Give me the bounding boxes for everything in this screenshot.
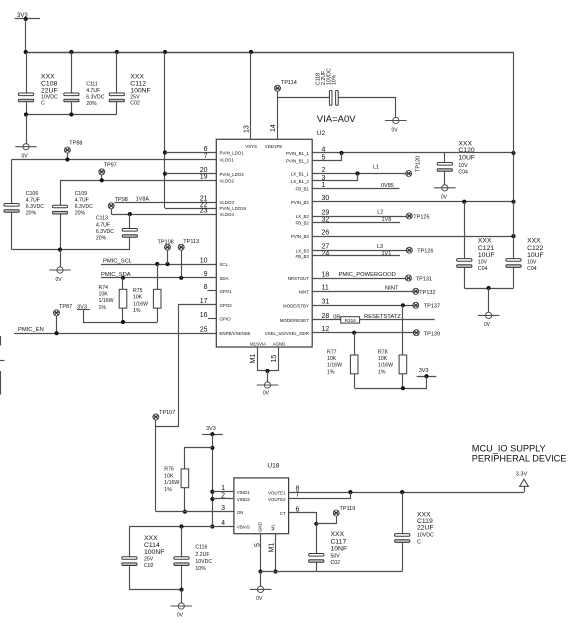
- svg-text:31: 31: [322, 299, 330, 306]
- svg-text:TP88: TP88: [69, 141, 82, 147]
- svg-text:FB_B3: FB_B3: [295, 254, 309, 259]
- svg-text:10K: 10K: [327, 356, 337, 362]
- svg-text:RESETSTATZ: RESETSTATZ: [364, 314, 401, 320]
- svg-text:1%: 1%: [327, 370, 335, 376]
- testpoint TP113: [178, 239, 199, 278]
- ground 0V (top left): [15, 144, 37, 160]
- svg-text:10K: 10K: [133, 294, 143, 300]
- svg-text:XXX: XXX: [41, 74, 55, 81]
- svg-text:R316: R316: [345, 318, 356, 323]
- svg-text:1/16W: 1/16W: [378, 363, 393, 369]
- wire pin3 to pin2: [313, 174, 358, 181]
- svg-text:14: 14: [270, 124, 277, 132]
- label C122: [527, 238, 544, 272]
- svg-text:6.3VDC: 6.3VDC: [26, 204, 44, 210]
- svg-text:C113: C113: [96, 216, 108, 222]
- label C113: [96, 216, 114, 242]
- svg-text:C02: C02: [144, 563, 154, 569]
- svg-text:M1SVIA: M1SVIA: [250, 342, 266, 347]
- label NINT: [385, 285, 399, 291]
- wire pullup bottom: [355, 377, 427, 391]
- testpoint TP114: [275, 80, 297, 98]
- svg-text:TP120: TP120: [416, 156, 422, 172]
- testpoint TP132: [413, 288, 436, 296]
- op-amp U18 body (LDO): [234, 478, 289, 534]
- wire 3V3 to top bus: [25, 19, 27, 52]
- svg-text:VLDO2: VLDO2: [220, 179, 235, 184]
- svg-text:23: 23: [200, 208, 208, 215]
- svg-text:NINT: NINT: [299, 289, 310, 294]
- ground 0V (mid left): [49, 267, 71, 283]
- svg-text:LX_B1_1: LX_B1_1: [291, 172, 310, 177]
- svg-text:TP126: TP126: [417, 248, 433, 254]
- svg-text:20%: 20%: [26, 211, 37, 217]
- svg-text:10UF: 10UF: [478, 252, 495, 259]
- U18 pin names: [237, 490, 286, 530]
- wire VOUTE1 net 3.3V: [289, 490, 524, 494]
- svg-text:10VDC: 10VDC: [417, 533, 434, 539]
- U2 bottom pin names: [250, 342, 285, 347]
- svg-text:C04: C04: [478, 266, 488, 272]
- svg-text:10NF: 10NF: [331, 546, 348, 553]
- label 0R: [333, 314, 340, 320]
- svg-text:PVIN_B1_2: PVIN_B1_2: [286, 159, 310, 164]
- power arrow 3.3V: [516, 472, 529, 492]
- svg-text:3.3V: 3.3V: [516, 472, 528, 478]
- svg-text:NINT: NINT: [385, 285, 399, 291]
- svg-text:25V: 25V: [144, 557, 154, 563]
- svg-text:1%: 1%: [133, 308, 141, 314]
- svg-text:0V: 0V: [263, 390, 270, 396]
- svg-text:CT: CT: [280, 511, 286, 516]
- svg-text:PVIN_LDO2: PVIN_LDO2: [220, 172, 245, 177]
- wire to ground: [26, 115, 28, 144]
- label C117: [331, 531, 348, 566]
- svg-text:4.7UF: 4.7UF: [75, 198, 89, 204]
- svg-text:C02: C02: [331, 560, 341, 566]
- svg-text:16: 16: [200, 312, 208, 319]
- label 0V85: [381, 183, 394, 189]
- svg-text:NRSTOUT: NRSTOUT: [288, 276, 309, 281]
- svg-text:FB_B2: FB_B2: [295, 220, 309, 225]
- wire fragment page edge b: [0, 360, 5, 362]
- power symbol 3V3 (pullups): [77, 304, 90, 310]
- svg-text:0V: 0V: [441, 195, 448, 201]
- wire pin17 to U18 ON: [156, 305, 217, 512]
- capacitor C116: [174, 527, 189, 590]
- svg-text:PVIN_LDO1: PVIN_LDO1: [220, 151, 245, 156]
- svg-text:C02: C02: [130, 101, 140, 107]
- capacitor C118: [278, 91, 396, 118]
- wire pin1 net FB_B1: [312, 188, 399, 190]
- svg-text:26: 26: [322, 230, 330, 237]
- svg-text:VOUTE1: VOUTE1: [268, 490, 286, 495]
- svg-text:6.3VDC: 6.3VDC: [96, 229, 114, 235]
- label R77: [327, 350, 342, 376]
- capacitor C109: [52, 180, 67, 249]
- label U2: [317, 130, 326, 137]
- svg-text:0V: 0V: [22, 154, 29, 160]
- svg-text:2.2UF: 2.2UF: [195, 552, 209, 558]
- svg-text:C109: C109: [75, 191, 88, 197]
- svg-text:LX_B2: LX_B2: [296, 214, 310, 219]
- U2 right pin names: [265, 151, 310, 336]
- svg-text:C112: C112: [130, 81, 146, 88]
- svg-text:C: C: [41, 101, 45, 107]
- power symbol 3V3 (R77/R78): [417, 368, 437, 378]
- svg-text:10%: 10%: [331, 74, 337, 85]
- wire to ground (C121/C122): [488, 288, 490, 312]
- testpoint TP120: [406, 156, 422, 177]
- svg-text:8: 8: [204, 284, 208, 291]
- wire fragment page edge c: [0, 371, 2, 395]
- U18 left pin numbers: [221, 485, 225, 527]
- svg-text:M1: M1: [271, 524, 276, 531]
- wire pin22 stub: [165, 208, 216, 210]
- svg-text:VIND1: VIND1: [237, 490, 250, 495]
- power symbol 3V3 (U18): [202, 426, 223, 436]
- svg-text:TP87: TP87: [59, 304, 72, 310]
- wire riser pins 6/20/22: [163, 52, 167, 208]
- wire 3V3 to pullup rail: [84, 310, 158, 325]
- svg-text:L3: L3: [377, 244, 383, 250]
- label C114: [144, 535, 164, 569]
- svg-text:100NF: 100NF: [144, 549, 164, 556]
- label C106: [26, 191, 44, 217]
- svg-text:VBIAS: VBIAS: [237, 525, 250, 530]
- label VSYS VDD1P8: [245, 144, 282, 149]
- label C111: [86, 82, 104, 108]
- wire 3V3 riser U18: [210, 434, 214, 528]
- svg-text:0V: 0V: [484, 322, 491, 328]
- svg-text:2: 2: [322, 167, 326, 174]
- wire pin31 net MODE/STBY: [312, 303, 413, 307]
- svg-text:6.3VDC: 6.3VDC: [86, 95, 104, 101]
- svg-text:3V3: 3V3: [17, 13, 28, 19]
- ground 0V (U2): [257, 382, 279, 397]
- resistor R75: [153, 264, 161, 322]
- label R74: [99, 285, 114, 311]
- wire fragment page edge a: [0, 336, 2, 346]
- wire pin23 net (VLDO4): [111, 212, 216, 216]
- resistor R74: [119, 278, 127, 322]
- capacitor C108: [18, 52, 33, 115]
- testpoint TP125: [406, 213, 429, 220]
- svg-text:0V: 0V: [56, 277, 63, 283]
- label 1V8A: [136, 197, 150, 203]
- resistor R77: [350, 333, 358, 389]
- wire pin32 net FB_B2: [312, 222, 400, 224]
- pin 13 VSYS: [243, 52, 250, 139]
- testpoint TP119: [317, 506, 356, 524]
- wire top 3V3 bus: [26, 52, 514, 54]
- svg-text:U18: U18: [267, 462, 279, 469]
- svg-text:TP97: TP97: [104, 163, 117, 169]
- svg-text:1V8A: 1V8A: [136, 197, 150, 203]
- svg-text:M1: M1: [250, 354, 257, 364]
- svg-text:R75: R75: [133, 288, 143, 294]
- svg-text:4.7UF: 4.7UF: [26, 198, 40, 204]
- label C109: [75, 191, 93, 217]
- capacitor C120: [437, 153, 452, 185]
- testpoint TP87: [54, 304, 73, 333]
- svg-text:VSYS: VSYS: [245, 144, 257, 149]
- U18 right pin numbers: [296, 486, 300, 514]
- svg-text:C108: C108: [41, 81, 57, 88]
- ground 0V (C121/C122): [478, 312, 500, 328]
- label R78: [378, 350, 393, 376]
- U2 left pin numbers: [200, 146, 208, 334]
- testpoint TP131: [406, 275, 433, 282]
- svg-text:LX_B1_2: LX_B1_2: [291, 179, 310, 184]
- wire pin5 to pin4: [313, 153, 342, 161]
- svg-text:PVIN_LDO34: PVIN_LDO34: [220, 206, 247, 211]
- ground 0V (C114/C116): [171, 603, 193, 619]
- svg-text:25: 25: [200, 327, 208, 334]
- svg-text:LX_B3: LX_B3: [296, 248, 310, 253]
- svg-text:20%: 20%: [96, 236, 107, 242]
- svg-text:R78: R78: [378, 350, 388, 356]
- label MCU_IO SUPPLY: [472, 443, 546, 453]
- testpoint TP97: [99, 163, 117, 181]
- wire pin21 net 1V8A: [115, 202, 217, 204]
- svg-text:4.7UF: 4.7UF: [96, 222, 110, 228]
- wire to ground (U18 GND): [260, 572, 262, 587]
- svg-text:10VDC: 10VDC: [195, 559, 212, 565]
- label R75: [133, 288, 148, 314]
- wire lower cap bus: [12, 248, 130, 252]
- label 1V1: [382, 251, 392, 257]
- U2 pin16 stub: [208, 318, 216, 320]
- wire pin6 stub: [165, 152, 216, 154]
- svg-text:FB_B1: FB_B1: [295, 187, 309, 192]
- svg-text:C117: C117: [331, 538, 347, 545]
- testpoint TP107: [153, 410, 176, 426]
- svg-text:0V85: 0V85: [381, 183, 394, 189]
- label C116: [195, 545, 212, 573]
- svg-text:TP119: TP119: [340, 506, 356, 512]
- svg-text:XXX: XXX: [527, 238, 541, 245]
- wire pin26 net PVIN_B3: [312, 234, 515, 238]
- svg-text:ON: ON: [237, 510, 244, 515]
- wire pin2 net LX_B1 / L1: [312, 171, 406, 175]
- net label PMIC_SCL: [103, 258, 133, 264]
- svg-text:10K: 10K: [99, 291, 109, 297]
- svg-text:ENPB/VSENSE: ENPB/VSENSE: [220, 331, 251, 336]
- svg-text:U2: U2: [317, 130, 326, 137]
- svg-text:9: 9: [204, 271, 208, 278]
- testpoint TP88: [64, 141, 82, 160]
- label C118 (rotated): [315, 68, 337, 85]
- wire pin29 net LX_B2 / L2: [312, 216, 406, 218]
- svg-text:10V: 10V: [458, 163, 468, 169]
- capacitor C111: [64, 52, 79, 115]
- wire pin28 net RESETSTATZ: [312, 319, 435, 321]
- svg-text:1/16W: 1/16W: [327, 363, 342, 369]
- svg-text:GND: GND: [257, 522, 262, 532]
- wire PMIC_SCL: [101, 262, 216, 266]
- svg-text:10UF: 10UF: [527, 252, 544, 259]
- svg-text:VIND2: VIND2: [237, 497, 250, 502]
- U2 left pin names: [220, 151, 251, 337]
- svg-text:C04: C04: [458, 170, 468, 176]
- svg-text:1%: 1%: [164, 487, 172, 493]
- wire U18 GND/M1 pins: [258, 534, 277, 574]
- svg-text:R74: R74: [99, 285, 109, 291]
- svg-text:4: 4: [221, 520, 225, 527]
- svg-text:SCL: SCL: [220, 262, 229, 267]
- wire PMIC_EN: [14, 331, 216, 335]
- svg-text:29: 29: [322, 209, 330, 216]
- svg-text:0R: 0R: [333, 314, 340, 320]
- testpoint TP137: [413, 302, 440, 309]
- svg-text:VIA=A0V: VIA=A0V: [317, 114, 356, 125]
- wire pin7 net (VLDO1): [12, 157, 217, 161]
- label C112: [130, 74, 150, 107]
- wire pin4 net PVIN_B1: [312, 151, 515, 155]
- svg-text:100NF: 100NF: [130, 88, 150, 95]
- testpoint TP139: [413, 330, 440, 338]
- ground 0V (C118): [385, 117, 407, 133]
- svg-text:C120: C120: [458, 147, 474, 154]
- svg-text:TP113: TP113: [183, 239, 199, 245]
- svg-text:PVIN_B3: PVIN_B3: [291, 234, 310, 239]
- svg-text:1%: 1%: [378, 370, 386, 376]
- wire pin11 net NINT: [312, 291, 413, 293]
- label VIA=A0V: [317, 114, 356, 125]
- wire C121/C122 bottom: [464, 286, 513, 290]
- power symbol 3V3 (top left): [15, 13, 40, 21]
- svg-text:XXX: XXX: [478, 238, 492, 245]
- svg-text:GPO1: GPO1: [220, 289, 233, 294]
- svg-text:0V: 0V: [256, 596, 263, 602]
- wire to ground (C114/C116): [181, 590, 183, 603]
- svg-text:R76: R76: [164, 467, 174, 473]
- wire U18 pin1: [212, 491, 234, 493]
- svg-text:3: 3: [221, 505, 225, 512]
- testpoint TP126: [406, 247, 433, 254]
- capacitor C122: [506, 259, 521, 289]
- svg-text:MODE/STBY: MODE/STBY: [283, 303, 309, 308]
- svg-text:3V3: 3V3: [419, 368, 429, 374]
- svg-text:MCU_IO SUPPLY: MCU_IO SUPPLY: [472, 443, 546, 453]
- label U18: [267, 462, 279, 469]
- svg-text:PVIN_B1_1: PVIN_B1_1: [286, 151, 310, 156]
- svg-text:6: 6: [204, 146, 208, 153]
- svg-text:M1: M1: [269, 543, 276, 553]
- svg-text:C122: C122: [527, 245, 543, 252]
- U18 bottom rotated pin numbers: [255, 543, 276, 553]
- capacitor C112: [109, 52, 124, 115]
- wire U18 pin2: [212, 498, 234, 500]
- svg-text:GPIO: GPIO: [220, 317, 232, 322]
- wire cap bottom bus: [24, 112, 117, 116]
- label C119: [417, 511, 434, 545]
- wire output ground rail: [261, 571, 403, 573]
- svg-text:MODE/RESET: MODE/RESET: [280, 318, 309, 323]
- svg-text:PMIC_POWERGOOD: PMIC_POWERGOOD: [339, 272, 396, 278]
- wire pin12 net VSEL: [312, 331, 413, 335]
- svg-text:PMIC_SCL: PMIC_SCL: [103, 258, 133, 264]
- label L1: [373, 165, 379, 171]
- svg-text:1: 1: [221, 485, 225, 492]
- svg-text:TP139: TP139: [424, 331, 440, 337]
- wire pin30 net PVIN_B2: [312, 200, 515, 204]
- label C108: [41, 74, 58, 107]
- svg-text:L2: L2: [377, 210, 383, 216]
- svg-text:VDD1P8: VDD1P8: [265, 144, 283, 149]
- svg-text:15: 15: [271, 355, 278, 363]
- wire U2 AGND pins: [258, 347, 279, 373]
- resistor R76: [181, 448, 212, 514]
- op-amp U2 body (PMIC): [216, 139, 312, 347]
- capacitor C119: [395, 492, 410, 571]
- label 1V8: [382, 217, 392, 223]
- svg-text:10: 10: [200, 257, 208, 264]
- svg-text:TP98: TP98: [115, 197, 128, 203]
- resistor R316 (0R): [341, 317, 360, 323]
- capacitor C117: [309, 524, 324, 572]
- label C121: [478, 238, 495, 272]
- wire U18 pin4 VBIAS: [129, 524, 234, 528]
- svg-text:50V: 50V: [331, 553, 341, 559]
- wire PMIC_SDA: [101, 276, 216, 280]
- wire CT net: [289, 513, 319, 526]
- net label PMIC_EN: [18, 327, 44, 333]
- wire to ground (U2): [267, 371, 269, 382]
- svg-text:SDA: SDA: [220, 276, 229, 281]
- svg-text:TP107: TP107: [159, 410, 175, 416]
- svg-text:22UF: 22UF: [41, 88, 58, 95]
- svg-text:TP125: TP125: [413, 214, 429, 220]
- svg-text:10K: 10K: [378, 356, 388, 362]
- ground 0V (U18 GND): [250, 586, 272, 602]
- svg-text:TP132: TP132: [419, 290, 435, 296]
- U2 pin8 stub: [208, 290, 217, 292]
- capacitor C106: [4, 160, 19, 250]
- svg-text:22UF: 22UF: [417, 525, 434, 532]
- svg-text:C121: C121: [478, 245, 494, 252]
- capacitor C113: [122, 214, 137, 250]
- svg-text:TP114: TP114: [281, 80, 297, 86]
- svg-text:7: 7: [204, 153, 208, 160]
- svg-text:VLDO1: VLDO1: [220, 158, 235, 163]
- wire pin24 net FB_B3: [312, 255, 400, 257]
- svg-text:1/16W: 1/16W: [164, 480, 179, 486]
- svg-text:1V8: 1V8: [382, 217, 392, 223]
- U2 right pin numbers: [322, 146, 330, 333]
- svg-text:18: 18: [322, 272, 330, 279]
- label L2: [377, 210, 383, 216]
- svg-text:L1: L1: [373, 165, 379, 171]
- svg-text:0V: 0V: [392, 128, 399, 134]
- net label PMIC_SDA: [101, 272, 131, 278]
- label L3: [377, 244, 383, 250]
- svg-text:XXX: XXX: [331, 531, 345, 538]
- resistor R78: [399, 305, 407, 388]
- wire pin20 stub: [165, 173, 216, 175]
- capacitor C121: [457, 202, 472, 288]
- svg-text:PMIC_EN: PMIC_EN: [18, 327, 44, 333]
- svg-text:19: 19: [200, 174, 208, 181]
- capacitor C114: [122, 527, 137, 590]
- wire pin27 net LX_B3 / L3: [312, 250, 406, 252]
- svg-text:10V: 10V: [527, 260, 537, 266]
- svg-text:10%: 10%: [195, 566, 206, 572]
- svg-text:VOUTE2: VOUTE2: [268, 497, 286, 502]
- svg-text:13: 13: [243, 125, 250, 133]
- label C120: [458, 140, 475, 175]
